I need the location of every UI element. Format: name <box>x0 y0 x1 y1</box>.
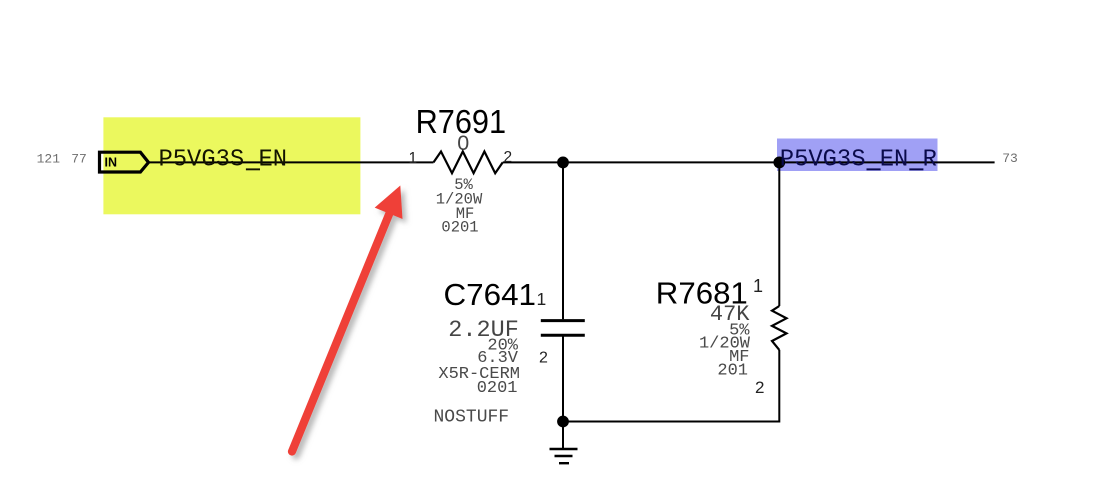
wire: vertical from junction to C7641 top plate <box>562 162 564 319</box>
svg-text:1: 1 <box>537 289 547 309</box>
junction node at R7681 top / net label <box>773 157 785 169</box>
svg-text:2: 2 <box>504 149 513 166</box>
wire: vertical from C7641 bottom plate to ground junction <box>562 335 564 448</box>
net label P5VG3S_EN_R <box>780 147 937 174</box>
svg-text:2: 2 <box>539 350 548 367</box>
resistor R7691 zigzag body <box>434 152 503 174</box>
svg-text:121: 121 <box>37 152 61 167</box>
svg-text:0201: 0201 <box>441 219 478 237</box>
svg-text:1: 1 <box>753 276 763 296</box>
ground symbol <box>550 449 578 463</box>
capacitor C7641 bottom plate <box>541 334 585 337</box>
resistor R7681 zigzag body <box>772 306 787 350</box>
blue highlight over P5VG3S_EN_R <box>777 139 938 172</box>
net label P5VG3S_EN <box>159 147 288 174</box>
svg-text:C7641: C7641 <box>444 277 537 312</box>
yellow highlight over P5VG3S_EN <box>103 117 360 214</box>
port symbol IN <box>100 152 149 172</box>
red annotation arrow <box>292 186 403 452</box>
svg-text:77: 77 <box>71 152 87 167</box>
wire: main horizontal from IN port to R7691 pin 1 <box>149 161 434 163</box>
svg-text:2: 2 <box>755 378 764 397</box>
svg-text:NOSTUFF: NOSTUFF <box>434 408 510 428</box>
svg-text:0201: 0201 <box>477 379 518 398</box>
wire: bottom horizontal from ground junction to R7681 <box>563 350 779 422</box>
junction node at ground net <box>557 416 569 428</box>
capacitor C7641 top plate <box>541 319 585 322</box>
wire: main horizontal from R7691 pin 2 to sheet pin 73 <box>503 161 995 163</box>
svg-text:201: 201 <box>717 362 748 381</box>
junction node at R7691 output <box>557 157 569 169</box>
svg-text:73: 73 <box>1002 151 1018 166</box>
wire: vertical from top junction down to R7681 <box>778 162 780 306</box>
svg-text:1: 1 <box>409 150 418 167</box>
